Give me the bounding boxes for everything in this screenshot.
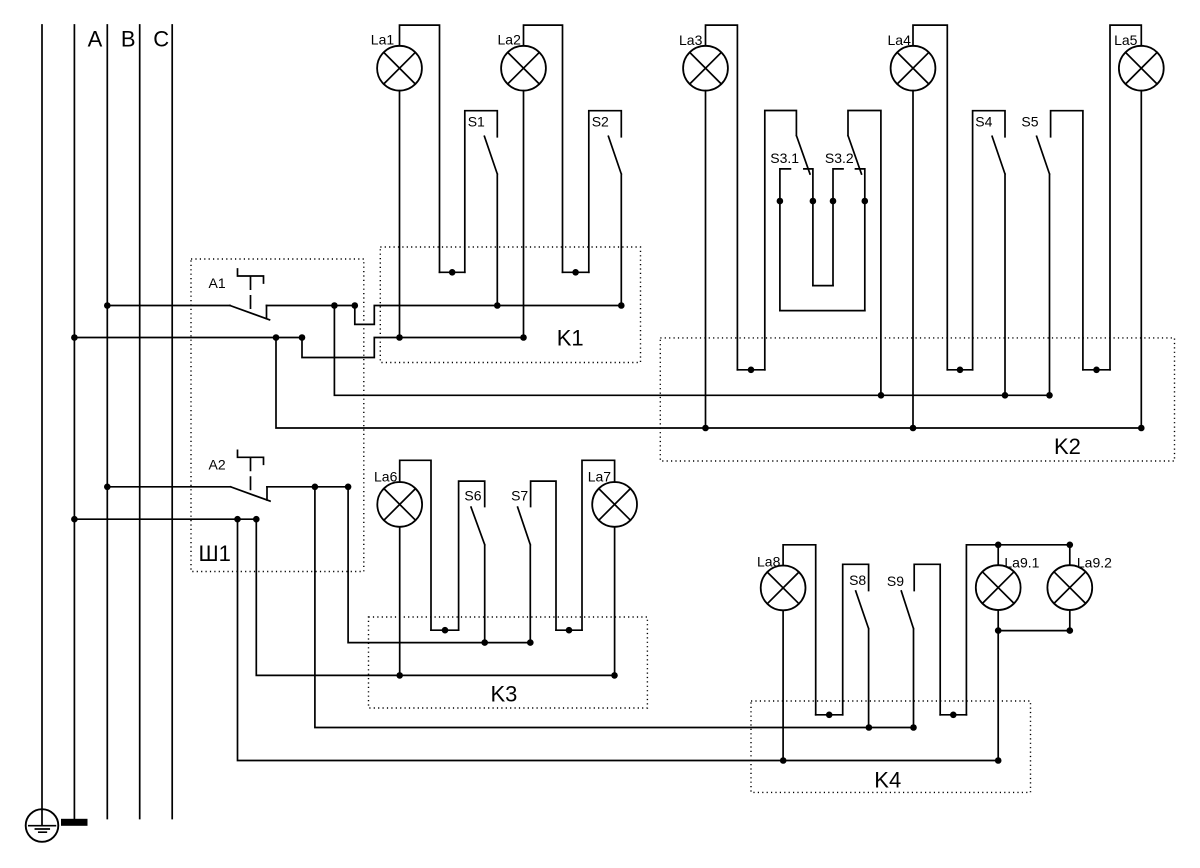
node La6-N [396,672,403,679]
box K1 (dotted) [380,247,640,363]
node K1-U1 [449,269,456,276]
wire phase B bus vertical [139,25,141,819]
svg-text:A: A [88,27,103,52]
label S9 [887,573,904,589]
node S3 phase feed [878,392,885,399]
breaker A1 [230,269,270,320]
wire N drop to K3 lamps [256,519,614,675]
wire La7 top loop [582,460,615,630]
svg-text:S6: S6 [464,487,481,503]
wire phase drop to K2 [334,306,1049,396]
node S5 feed [1046,392,1053,399]
lamp La9.1 [976,565,1021,610]
node N branch a [273,334,280,341]
svg-text:La2: La2 [498,32,522,48]
label S3.2 [825,150,854,166]
switch S1 [465,111,498,306]
node N2 branch a [234,516,241,523]
label La9.2 [1077,555,1112,571]
lamp La7 [592,482,637,527]
node A2-out b [345,484,352,491]
label K1 [557,326,584,351]
node La7-N [611,672,618,679]
node La9.1 top [995,542,1002,549]
node S2 feed [618,302,625,309]
wire K3 terminal U1 [431,629,459,631]
wire La6 top loop [400,460,431,630]
wire K1 terminal U1 [440,271,465,273]
svg-text:C: C [153,27,169,52]
svg-text:A2: A2 [209,457,226,473]
node S9 feed [910,724,917,731]
wire La9.1 bottom lead [997,610,999,631]
wire phase drop to K3 switches [348,487,530,643]
svg-text:La8: La8 [757,554,781,570]
label S7 [511,487,528,503]
label La2 [498,32,522,48]
switch S9 [901,564,940,727]
svg-text:S5: S5 [1021,114,1038,130]
wire La3 top loop [706,25,738,370]
wire La2 top loop [524,25,563,272]
node La9.1 bottom [995,627,1002,634]
node S4 feed [1002,392,1009,399]
switch S5 [1037,111,1083,396]
lamp La5 [1119,46,1164,91]
node N2 branch b [253,516,260,523]
node S3.2 left [830,198,837,205]
label La5 [1114,32,1138,48]
lamp La9.2 [1047,565,1092,610]
svg-text:B: B [121,27,136,52]
wire La5 bottom [1140,91,1142,428]
node K1-U2 [572,269,579,276]
node N branch b [299,334,306,341]
svg-text:S8: S8 [849,572,866,588]
wire phase C bus vertical [171,25,173,819]
label phase C [153,27,169,52]
switch S7 [518,481,556,642]
wire La2 bottom [523,91,525,338]
node K2-U2 [957,367,964,374]
wire tap phase A to A2 [107,486,230,488]
wire N bus vertical [73,25,75,819]
label A1 [209,275,226,291]
label La8 [757,554,781,570]
wire La3 bottom [705,91,707,428]
svg-text:S3.1: S3.1 [770,150,799,166]
label phase A [88,27,103,52]
label K3 [491,681,518,706]
label K2 [1054,434,1081,459]
node S6 feed [481,639,488,646]
svg-text:S7: S7 [511,487,528,503]
node K3-U2 [566,627,573,634]
wire N2 tap [74,518,256,520]
wire La7 bottom [614,527,616,676]
switch S2 [589,111,622,306]
svg-text:Ш1: Ш1 [199,541,231,566]
label La9.1 [1004,555,1039,571]
wire La4 bottom [912,91,914,428]
node S3.1 left [777,198,784,205]
wire N jog to K1 [302,338,524,358]
label La6 [374,469,398,485]
lamp La6 [377,482,422,527]
label La3 [679,32,703,48]
wire La8 bottom [782,610,784,760]
switch S8 [843,564,869,727]
svg-text:A1: A1 [209,275,226,291]
node La4-N [910,425,917,432]
wire tap phase A to A1 [107,305,230,307]
node A1-out a [331,302,338,309]
switch S3.2 [833,111,881,396]
switch S6 [459,481,485,642]
switch S4 [973,111,1005,396]
label Ш1 [199,541,231,566]
wire La6 bottom [399,527,401,676]
box K2 (dotted) [660,338,1174,461]
node La9.2 top [1067,542,1074,549]
wire La9 bottom bus [998,630,1070,632]
node La1-N [396,334,403,341]
node La9-N [995,757,1002,764]
lamp La1 [377,46,422,91]
wire A1 output [267,305,355,307]
svg-text:K1: K1 [557,326,584,351]
wire S3 outer link [780,310,865,312]
lamp La2 [501,46,546,91]
ground (earth electrode symbol) [26,809,59,842]
wire La9 neutral riser [997,631,999,761]
node S3.2 right [862,198,869,205]
wire La4 top loop [913,25,947,370]
svg-text:La1: La1 [371,32,395,48]
svg-text:La3: La3 [679,32,703,48]
node K4-U2 [950,712,957,719]
node La5-N [1138,425,1145,432]
wire phase drop to K4 switches [315,487,914,728]
node La2-N [520,334,527,341]
wire La9.2 top lead [1069,545,1071,565]
svg-text:K4: K4 [874,768,901,793]
label phase B [121,27,136,52]
label S3.1 [770,150,799,166]
label A2 [209,457,226,473]
wire PE bus vertical [41,25,43,809]
svg-text:S1: S1 [468,114,485,130]
wire K4 terminal U1 [816,714,843,716]
svg-text:S4: S4 [975,114,992,130]
box K4 (dotted) [751,701,1031,792]
svg-text:La9.1: La9.1 [1004,555,1039,571]
wire La5 top loop [1110,25,1141,370]
label S4 [975,114,992,130]
node K4-U1 [826,712,833,719]
label La7 [588,469,612,485]
box K3 (dotted) [369,617,648,708]
node K2-U3 [1093,367,1100,374]
node tap A1 [104,302,111,309]
breaker A2 [231,450,271,501]
svg-text:K2: K2 [1054,434,1081,459]
wire N tap to Ш1 [74,337,302,339]
wire K2 terminal U1 [737,369,764,371]
box Ш1 (dotted) [191,259,364,572]
wire La8 top loop [783,545,816,715]
wire K4 terminal U2 [940,714,966,716]
node tap A2 [104,484,111,491]
node K2-U1 [748,367,755,374]
node tap N1 [71,334,78,341]
svg-text:La4: La4 [888,32,912,48]
node La9.2 bottom [1067,627,1074,634]
wire La1 top loop [400,25,440,272]
svg-text:K3: K3 [491,681,518,706]
label S8 [849,572,866,588]
wire K2 terminal U3 [1083,369,1110,371]
wire S3 inner link [813,285,833,287]
node tap N2 [71,516,78,523]
lamp La3 [683,46,728,91]
wire La9.1 top lead [997,545,999,565]
label S2 [592,114,609,130]
svg-text:S3.2: S3.2 [825,150,854,166]
node S8 feed [866,724,873,731]
node S7 feed [527,639,534,646]
label K4 [874,768,901,793]
lamp La4 [891,46,936,91]
wire A2 output [267,486,348,488]
label S5 [1021,114,1038,130]
wire La9.2 bottom lead [1069,610,1071,631]
wire K3 terminal U2 [556,629,582,631]
node A1-out b [352,302,359,309]
node S3.1 right [810,198,817,205]
wire N drop to K4 lamps [238,519,999,760]
wire phase A bus vertical [106,25,108,819]
wire La1 bottom [399,91,401,338]
label La1 [371,32,395,48]
wire La9 phase riser [966,545,1069,715]
wire N drop to K2 [276,338,1141,429]
label S6 [464,487,481,503]
node S1 feed [494,302,501,309]
label La4 [888,32,912,48]
node La8-N [780,757,787,764]
svg-text:S2: S2 [592,114,609,130]
svg-text:S9: S9 [887,573,904,589]
wire K2 terminal U2 [947,369,972,371]
lamp La8 [761,566,806,611]
switch S3.1 [765,111,813,370]
svg-text:La5: La5 [1114,32,1138,48]
node K3-U1 [442,627,449,634]
label S1 [468,114,485,130]
node La3-N [702,425,709,432]
svg-text:La7: La7 [588,469,612,485]
svg-text:La6: La6 [374,469,398,485]
wire phase jog to K1 [355,306,622,325]
wire K1 terminal U2 [563,271,589,273]
svg-text:La9.2: La9.2 [1077,555,1112,571]
busbar N terminal [61,819,88,826]
node A2-out a [312,484,319,491]
